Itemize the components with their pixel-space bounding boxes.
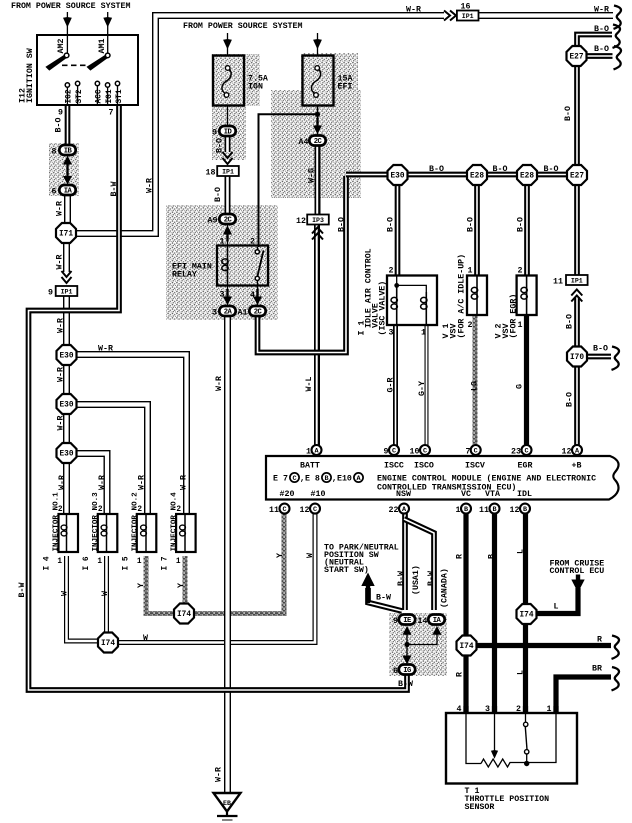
connector arrow down into IG xyxy=(403,656,412,665)
svg-text:IA: IA xyxy=(64,188,73,196)
svg-text:B: B xyxy=(488,554,497,559)
svg-text:9: 9 xyxy=(48,289,53,298)
svg-text:B-O: B-O xyxy=(55,118,64,133)
wire L thick from cruise control ECU arrow to junction I74 xyxy=(537,588,578,614)
wire thin 15A fuse to connector 2C A4 xyxy=(317,96,319,135)
svg-text:1: 1 xyxy=(468,267,473,276)
svg-text:1: 1 xyxy=(220,238,225,247)
svg-text:+B: +B xyxy=(572,462,582,471)
wire W-R junction E30 branch to injector NO.2 xyxy=(76,405,148,516)
svg-text:9: 9 xyxy=(212,129,217,138)
wire W-G connector 2C A4 down to IP3 pin12 xyxy=(315,146,321,216)
wire W-R junction I71 down to connector IP1 pin9 xyxy=(63,242,70,272)
wire B-O IP1 pin11 down to junction I70 xyxy=(574,297,580,348)
wire BR thick from right edge hook to TPS pin 1 xyxy=(556,677,611,713)
svg-text:E28: E28 xyxy=(470,173,484,181)
svg-text:R: R xyxy=(456,554,465,559)
octagon junction E30 left 2 xyxy=(57,394,77,414)
ignition terminal IG2 xyxy=(66,86,68,105)
wire thin connector IA to junction dot xyxy=(407,631,437,645)
connector oval IG xyxy=(399,665,415,676)
wire L thick ECU pin 12(B) IDL down to TPS pin 2 xyxy=(523,513,528,713)
svg-text:B-O: B-O xyxy=(566,314,575,329)
hatch region around connectors IB/IA xyxy=(49,143,79,196)
TPS potentiometer circuit xyxy=(466,714,481,764)
ignition switch AM2 contact lever xyxy=(45,53,68,70)
svg-text:9: 9 xyxy=(58,109,63,118)
relay switch xyxy=(257,247,259,250)
svg-text:#10: #10 xyxy=(311,490,326,499)
connector box IP1 pin16 xyxy=(457,11,479,21)
svg-text:11: 11 xyxy=(553,278,563,287)
svg-text:W-R: W-R xyxy=(215,767,224,782)
EFI main relay box xyxy=(217,246,268,286)
svg-text:3: 3 xyxy=(389,329,394,338)
svg-text:Y: Y xyxy=(276,553,285,558)
svg-text:7: 7 xyxy=(466,448,471,457)
svg-text:B-O: B-O xyxy=(216,138,225,153)
connector oval IB xyxy=(59,145,75,156)
svg-text:IGN: IGN xyxy=(248,83,263,92)
wire Y injector NO.4 down to junction I74 xyxy=(183,556,188,604)
connector oval IA canada xyxy=(428,615,444,626)
connector arrow down into 2C A1 xyxy=(256,289,258,298)
wire G thick VSV V2 pin 1 to ECU pin 23(C) EGR xyxy=(524,315,529,445)
svg-text:IP1: IP1 xyxy=(462,13,474,20)
wire W-R IP1 pin16 to right edge hook xyxy=(479,12,614,19)
svg-text:2: 2 xyxy=(389,267,394,276)
svg-text:3: 3 xyxy=(485,705,490,714)
hatch region around EFI main relay xyxy=(166,205,278,320)
svg-text:A9: A9 xyxy=(208,217,218,226)
svg-text:W-R: W-R xyxy=(594,6,609,15)
svg-text:B-O: B-O xyxy=(593,345,608,354)
ignition switch box I12 xyxy=(37,35,138,105)
octagon junction I71 xyxy=(56,223,76,243)
svg-text:1: 1 xyxy=(456,506,461,515)
svg-text:VTA: VTA xyxy=(485,490,500,499)
svg-text:VC: VC xyxy=(461,490,471,499)
svg-text:22: 22 xyxy=(389,506,399,515)
svg-text:I70: I70 xyxy=(570,354,584,362)
svg-text:EFI: EFI xyxy=(338,83,353,92)
svg-text:A4: A4 xyxy=(299,138,309,147)
junction dot IE/IA merge xyxy=(404,642,409,647)
svg-text:B-W: B-W xyxy=(376,594,391,603)
octagon junction I70 xyxy=(567,347,587,367)
svg-text:(FOR EGR): (FOR EGR) xyxy=(509,294,519,339)
svg-text:LG: LG xyxy=(471,381,480,391)
svg-text:W-R: W-R xyxy=(406,6,421,15)
svg-text:I74: I74 xyxy=(101,640,115,648)
svg-text:B-W: B-W xyxy=(427,571,436,586)
svg-text:E30: E30 xyxy=(59,353,73,361)
TPS pin 1 stub xyxy=(553,706,558,714)
svg-text:11: 11 xyxy=(479,506,489,515)
ECU box engine control module xyxy=(266,456,619,500)
ECU pin 11(C) #20 xyxy=(280,504,290,514)
wire W injector NO.3 down to junction I74 xyxy=(104,556,109,633)
connector arrow up into IB xyxy=(66,162,68,178)
svg-text:B-W: B-W xyxy=(18,583,27,598)
chevron arrow into IP1 pin9 xyxy=(62,271,72,283)
wire B-O junction E28 down to VSV V2 pin 2 xyxy=(524,184,530,276)
wire B-O junction E30 down to ISC valve pin 2 xyxy=(395,183,401,276)
wire W-R relay connector 2A down to ground EB xyxy=(224,314,231,792)
connector box IP1 pin18 xyxy=(217,166,239,176)
wire B-O ignition switch IG2 down to connector IB xyxy=(65,105,71,146)
wire Y junction I74 to ECU pin 11(C) xyxy=(195,513,284,614)
ISC valve internal junction and coils xyxy=(397,276,427,293)
svg-text:C: C xyxy=(392,448,396,456)
wire B-O junction E28 down to VSV V1 pin 1 xyxy=(474,184,480,276)
hatch region around fuse 7.5A IGN xyxy=(212,54,260,106)
svg-text:W-R: W-R xyxy=(58,475,67,490)
svg-text:B-O: B-O xyxy=(566,392,575,407)
svg-text:IG2: IG2 xyxy=(66,89,74,103)
ECU pin 11(B) VTA xyxy=(490,504,500,514)
wire W junction I74 to ECU pin 12(C) xyxy=(118,513,315,643)
wire B-O junction I70 down to ECU pin 12(A) +B xyxy=(574,365,580,446)
svg-text:12: 12 xyxy=(300,506,310,515)
svg-text:INJECTOR NO.4: INJECTOR NO.4 xyxy=(171,492,179,552)
svg-text:I 4: I 4 xyxy=(44,556,52,570)
svg-text:ISCO: ISCO xyxy=(414,462,434,471)
svg-text:4: 4 xyxy=(250,291,255,300)
svg-text:18: 18 xyxy=(206,169,216,178)
connector arrow up into IA canada xyxy=(433,626,442,635)
svg-text:B-O: B-O xyxy=(214,187,223,202)
svg-text:2: 2 xyxy=(468,321,473,330)
injector NO.1 box I4 xyxy=(59,514,79,552)
svg-text:6: 6 xyxy=(52,188,57,197)
svg-text:B-O: B-O xyxy=(467,217,476,232)
wire B-O junction I70 branch to right edge hook xyxy=(586,354,611,360)
octagon junction I74 injectors 1-3 xyxy=(98,633,118,653)
svg-text:IB: IB xyxy=(64,148,73,156)
wire thin relay pin 3 to connector 2A xyxy=(227,284,229,307)
svg-text:W-R: W-R xyxy=(57,318,66,333)
wire W-R junction E30 branch to injector NO.3 xyxy=(76,454,107,516)
svg-text:2C: 2C xyxy=(254,309,263,317)
svg-text:ACC: ACC xyxy=(96,89,104,103)
injector NO.2 box I5 xyxy=(137,514,157,552)
svg-text:W-R: W-R xyxy=(56,255,65,270)
chevron arrow into IP1 pin18 xyxy=(223,152,233,164)
ECU pin 12(A) +B xyxy=(572,445,582,456)
wire B thick ECU pin 11(B) VTA down to TPS pin 3 xyxy=(492,513,497,713)
svg-text:7: 7 xyxy=(109,109,114,118)
svg-text:B: B xyxy=(523,506,527,514)
octagon junction E30 left 1 xyxy=(57,345,77,365)
ignition terminal ST1 xyxy=(117,85,119,105)
chevron arrow below IP3 pin12 xyxy=(312,228,323,240)
svg-text:W-R: W-R xyxy=(180,475,189,490)
wire R thick ECU pin 1(B) VC down to TPS pin 4 xyxy=(463,513,468,713)
relay coil xyxy=(227,247,229,284)
wire W injector NO.1 to junction I74 xyxy=(67,556,99,641)
svg-text:IA: IA xyxy=(433,617,442,625)
hatch region below fuse around connector ID xyxy=(212,106,246,160)
wire W-R between junctions E30 xyxy=(63,364,70,395)
ECU pin 10(C) ISCO xyxy=(420,445,430,456)
injector NO.4 box I7 xyxy=(176,514,196,552)
svg-text:I 7: I 7 xyxy=(162,556,170,570)
ignition terminal ACC xyxy=(96,85,98,105)
svg-text:B-O: B-O xyxy=(594,45,609,54)
chevron arrow into IP1 pin16 xyxy=(444,11,456,21)
svg-text:START SW): START SW) xyxy=(324,565,369,575)
wire W-R ignition switch IA to junction I71 xyxy=(64,196,71,224)
svg-text:W: W xyxy=(143,634,148,643)
svg-text:IP3: IP3 xyxy=(312,217,324,224)
svg-text:B: B xyxy=(492,506,496,514)
svg-text:G-R: G-R xyxy=(387,378,396,393)
page hook B-O upper xyxy=(613,25,621,48)
connector oval ID xyxy=(219,126,235,137)
svg-text:C: C xyxy=(292,475,296,483)
octagon junction E28 row 2 xyxy=(517,165,537,185)
junction dot at EFI fuse branch xyxy=(315,112,320,117)
svg-text:B-W: B-W xyxy=(397,571,406,586)
svg-text:W-R: W-R xyxy=(98,345,113,354)
svg-text:1: 1 xyxy=(57,558,62,566)
svg-text:B-O: B-O xyxy=(493,165,508,174)
svg-text:W-G: W-G xyxy=(308,168,317,183)
connector box IP3 pin12 xyxy=(307,215,329,225)
svg-text:10: 10 xyxy=(410,448,420,457)
svg-text:EGR: EGR xyxy=(518,462,533,471)
svg-text:C: C xyxy=(313,506,317,514)
wire thin connector IE to junction dot to connector IG xyxy=(406,631,408,661)
wire thin 7.5A fuse to connector ID xyxy=(227,96,229,127)
svg-text:1: 1 xyxy=(421,329,426,338)
wire W-R IP1 pin9 down to junction E30 xyxy=(63,296,70,346)
svg-text:B-O: B-O xyxy=(429,165,444,174)
wire B-W ECU pin 22(A) NSW down to connector IE (USA) xyxy=(402,513,408,610)
svg-text:B: B xyxy=(324,475,328,483)
svg-text:B-O: B-O xyxy=(338,217,347,232)
svg-text:C: C xyxy=(423,448,427,456)
svg-text:I 6: I 6 xyxy=(83,556,91,570)
connector oval 2A xyxy=(219,306,235,317)
svg-text:CONTROL ECU: CONTROL ECU xyxy=(550,567,605,576)
wire W-L IP3 pin12 down to ECU pin 1(A) BATT xyxy=(314,224,320,446)
svg-text:W-R: W-R xyxy=(138,475,147,490)
connector arrow down into 2A xyxy=(226,289,228,298)
svg-text:L: L xyxy=(517,670,526,675)
svg-text:B: B xyxy=(464,506,468,514)
ECU pin 12(C) #10 xyxy=(310,504,320,514)
connector oval IA xyxy=(59,185,75,196)
TPS wiper arrow from pin 3 xyxy=(494,714,496,752)
ignition terminal IG1 xyxy=(107,86,109,105)
page hook R wire xyxy=(612,636,620,659)
svg-text:B-O: B-O xyxy=(387,217,396,232)
ECU pin 1(A) BATT xyxy=(312,445,322,456)
ground symbol EB xyxy=(214,793,241,812)
svg-text:W-R: W-R xyxy=(57,416,66,431)
octagon junction I74 on IDL wire xyxy=(517,604,537,624)
hatch region around connectors IE/IA/IG xyxy=(389,613,447,676)
arrow from power source into AM2 xyxy=(66,12,68,55)
svg-text:(FOR A/C IDLE-UP): (FOR A/C IDLE-UP) xyxy=(457,254,467,339)
svg-text:14: 14 xyxy=(418,617,428,626)
svg-text:AM1: AM1 xyxy=(98,39,107,54)
svg-text:1: 1 xyxy=(547,705,552,714)
VSV V2 box xyxy=(517,276,537,316)
svg-text:ISCC: ISCC xyxy=(384,462,404,471)
arrow into fuse 15A xyxy=(317,33,319,55)
svg-text:B-O: B-O xyxy=(517,217,526,232)
svg-text:6: 6 xyxy=(393,667,398,676)
ECU pin 7(C) ISCV xyxy=(471,445,481,456)
octagon junction E27 row xyxy=(567,165,587,185)
svg-text:E27: E27 xyxy=(570,173,584,181)
svg-text:R: R xyxy=(456,672,465,677)
wire B-O junction row E30 E28 E28 E27 xyxy=(346,172,577,178)
connector arrow down into IA xyxy=(63,176,72,185)
svg-text:(USA1): (USA1) xyxy=(411,565,421,595)
TPS pin 3 stub xyxy=(492,706,497,714)
svg-text:E 7: E 7 xyxy=(273,475,288,484)
svg-text:E27: E27 xyxy=(569,54,583,62)
chevron arrow below IP1 pin11 xyxy=(571,290,582,302)
connector arrow up into 2C A9 xyxy=(226,232,228,241)
svg-text:W-R: W-R xyxy=(146,178,155,193)
svg-text:IG1: IG1 xyxy=(106,89,114,103)
svg-text:C: C xyxy=(474,448,478,456)
svg-text:IDL: IDL xyxy=(517,490,532,499)
svg-text:I71: I71 xyxy=(59,231,73,239)
svg-text:I74: I74 xyxy=(177,611,191,619)
octagon junction E27 top xyxy=(567,46,587,66)
wire B-O junction E27 down to IP1 pin11 xyxy=(574,184,580,276)
svg-text:W-L: W-L xyxy=(305,377,314,392)
svg-text:23: 23 xyxy=(511,448,521,457)
svg-text:4: 4 xyxy=(457,705,462,714)
wire thin connector 2C A9 to relay pin 1 xyxy=(227,224,229,247)
svg-text:W-R: W-R xyxy=(56,201,65,216)
svg-text:1: 1 xyxy=(137,558,142,566)
wire B-W ECU pin 22(A) NSW branch to connector IA (CANADA) xyxy=(404,519,434,610)
wire B-W to park/neutral position switch arrow xyxy=(368,588,402,611)
svg-text:C: C xyxy=(282,506,286,514)
wire R thick junction I74 branch to right edge hook xyxy=(477,643,611,648)
svg-text:1: 1 xyxy=(97,558,102,566)
arrow from power source into AM1 xyxy=(107,12,109,55)
wire B-O IP1 pin18 down to connector 2C A9 xyxy=(225,176,231,214)
throttle position sensor T1 box xyxy=(446,713,577,784)
wire W-R between junctions E30 lower xyxy=(63,413,70,444)
svg-text:IE: IE xyxy=(403,617,412,625)
wire W-R junction E30 branch to injector NO.4 xyxy=(76,355,187,516)
svg-text:AM2: AM2 xyxy=(57,39,66,54)
svg-text:I74: I74 xyxy=(459,643,473,651)
svg-text:E30: E30 xyxy=(59,402,73,410)
arrow down from cruise control ECU xyxy=(576,575,580,582)
svg-text:16: 16 xyxy=(461,3,471,12)
ECU pin 22(A) NSW xyxy=(399,504,409,514)
connector box IP1 pin11 xyxy=(566,275,588,285)
connector arrow up into IE xyxy=(403,626,412,635)
svg-text:3: 3 xyxy=(220,291,225,300)
svg-text:FROM POWER SOURCE SYSTEM: FROM POWER SOURCE SYSTEM xyxy=(11,2,131,11)
wire thick 15A fuse branch to relay pin 2 xyxy=(259,114,318,247)
connector oval IE xyxy=(399,615,415,626)
svg-text:IG: IG xyxy=(403,667,411,675)
svg-text:ST1: ST1 xyxy=(116,89,124,103)
svg-text:2C: 2C xyxy=(314,138,323,146)
svg-text:12: 12 xyxy=(562,448,572,457)
svg-text:L: L xyxy=(517,549,526,554)
svg-text:C: C xyxy=(524,448,528,456)
svg-text:Y: Y xyxy=(137,583,146,588)
svg-text:1: 1 xyxy=(176,558,181,566)
svg-text:R: R xyxy=(597,636,602,645)
octagon junction E30 row xyxy=(388,165,408,185)
page hook B-O second xyxy=(614,46,622,69)
svg-text:1: 1 xyxy=(518,321,523,330)
svg-text:L: L xyxy=(554,603,559,612)
page hook W-R top right xyxy=(614,6,622,29)
svg-text:RELAY: RELAY xyxy=(172,271,197,280)
svg-text:2C: 2C xyxy=(224,217,233,225)
svg-text:2: 2 xyxy=(518,267,523,276)
svg-text:W: W xyxy=(61,591,70,596)
wire W-R junction I71 up and across top to IP1 pin16 xyxy=(75,16,444,234)
arrow into fuse 7.5A xyxy=(227,33,229,55)
injector NO.3 box I6 xyxy=(98,514,118,552)
svg-text:NSW: NSW xyxy=(396,490,411,499)
svg-text:W: W xyxy=(101,591,110,596)
connector oval 2C A9 xyxy=(219,214,235,225)
page hook BR wire xyxy=(612,667,620,690)
svg-text:(ISC VALVE): (ISC VALVE) xyxy=(378,281,388,336)
wire Y injector NO.2 to junction I74 xyxy=(146,556,173,614)
svg-text:#20: #20 xyxy=(280,490,295,499)
svg-text:3: 3 xyxy=(212,309,217,318)
connector oval 2C A1 xyxy=(249,306,265,317)
svg-text:,E10: ,E10 xyxy=(332,475,352,484)
svg-text:SENSOR: SENSOR xyxy=(465,803,495,812)
svg-text:B-W: B-W xyxy=(110,182,119,197)
octagon junction E28 row 1 xyxy=(467,165,487,185)
dashed mechanical link between levers xyxy=(62,64,87,66)
wire W-R junction E30 down to injector NO.1 xyxy=(63,462,70,515)
svg-text:BATT: BATT xyxy=(300,462,320,471)
ISC valve I11 box xyxy=(387,276,437,326)
ECU pin 23(C) EGR xyxy=(522,445,532,456)
TPS idle switch from pin 2 xyxy=(525,714,527,722)
ignition terminal ST2 xyxy=(77,85,79,105)
svg-text:G: G xyxy=(516,384,525,389)
TPS pin 4 stub xyxy=(463,706,468,714)
hatch region around fuse 15A EFI xyxy=(301,53,358,106)
svg-text:INJECTOR NO.2: INJECTOR NO.2 xyxy=(132,492,140,552)
wire B-O junction E27 up to junction E27 top xyxy=(574,65,580,166)
svg-text:IGNITION SW: IGNITION SW xyxy=(26,48,35,103)
TPS pin 2 stub xyxy=(523,706,528,714)
svg-text:11: 11 xyxy=(269,506,279,515)
svg-text:2A: 2A xyxy=(224,309,233,317)
wire G-R ISC valve pin 3 to ECU pin 9(C) ISCC xyxy=(393,325,398,446)
svg-text:12: 12 xyxy=(296,217,306,226)
svg-text:W-R: W-R xyxy=(98,475,107,490)
wire G-Y ISC valve pin 1 to ECU pin 10(C) ISCO xyxy=(425,325,429,446)
svg-text:9: 9 xyxy=(384,448,389,457)
svg-text:Y: Y xyxy=(177,583,186,588)
